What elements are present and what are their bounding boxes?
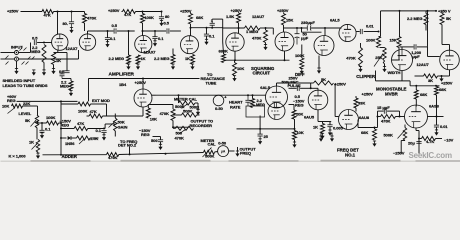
- svg-text:REG: REG: [295, 103, 304, 108]
- label 500usec: [282, 79, 299, 84]
- svg-text:0.5: 0.5: [164, 21, 170, 26]
- tube U12 12AU7 monostable B: [440, 50, 460, 70]
- wire: [70, 79, 72, 82]
- label 47K ext mod: [90, 109, 97, 114]
- capacitor 0.1 stage3: [204, 34, 209, 36]
- tube U1b 12AX7 section B: [79, 34, 95, 50]
- junction: [441, 75, 443, 77]
- wire box down: [259, 116, 261, 135]
- wire to 6AL5: [311, 27, 342, 29]
- wire: [173, 114, 182, 116]
- resistor 22K pot: [12, 104, 23, 108]
- capacitor 15uuF: [384, 109, 386, 114]
- wire: [84, 12, 86, 14]
- svg-text:500K: 500K: [183, 109, 193, 114]
- wire: [293, 105, 295, 111]
- svg-text:12AU7: 12AU7: [417, 62, 430, 67]
- svg-text:15K: 15K: [286, 18, 293, 23]
- tube U6a 6AL5 clipper lower: [314, 36, 334, 56]
- ground 2.2MEG stage2: [127, 64, 131, 69]
- resistor 10K det1: [293, 131, 297, 140]
- svg-text:1N56: 1N56: [65, 141, 75, 146]
- svg-text:470K: 470K: [160, 111, 170, 116]
- tube U6b 6AL5 clipper upper: [339, 24, 356, 41]
- resistor 68K plate stage3: [189, 14, 193, 25]
- ground 0.005: [328, 130, 332, 135]
- ground 25: [258, 139, 262, 144]
- junction rail/cap80: [71, 11, 73, 13]
- svg-text:100K: 100K: [145, 15, 155, 20]
- wire: [154, 31, 156, 37]
- label DET NO2: [118, 143, 137, 148]
- svg-text:6AL5: 6AL5: [330, 18, 340, 23]
- wire: [401, 47, 403, 50]
- resistor 47K ext mod: [89, 114, 102, 118]
- resistor 47K plate supply: [42, 10, 54, 14]
- label 500K det: [183, 109, 193, 114]
- capacitor 0.005: [327, 125, 332, 127]
- label SHIELDED INPUT: [3, 78, 36, 83]
- junction: [259, 128, 261, 130]
- potentiometer arrow 22K: [8, 108, 16, 114]
- svg-text:GAIN: GAIN: [118, 124, 128, 129]
- wire: [148, 104, 173, 106]
- label 0.5 coupling: [112, 23, 118, 28]
- capacitor 0.5 cathode bypass: [64, 71, 69, 73]
- svg-text:0.1: 0.1: [45, 127, 51, 132]
- label 100K: [145, 15, 155, 20]
- wire: [331, 133, 333, 137]
- label 2.2MEG mvbr: [407, 16, 422, 21]
- label 230uuF: [301, 20, 315, 25]
- wire: [260, 27, 273, 29]
- wire: [396, 116, 405, 118]
- junction: [103, 128, 105, 130]
- resistor 1K diff: [321, 124, 325, 134]
- ground 0.1: [106, 42, 110, 47]
- label 5K: [446, 16, 451, 21]
- label +250V stage4: [231, 8, 243, 13]
- wire: [237, 147, 239, 151]
- wire to plate U2: [142, 23, 144, 36]
- section label FREQ DET: [337, 148, 359, 153]
- label 0.005: [333, 125, 344, 130]
- label 6AL5 squaring: [260, 85, 270, 90]
- label 12AX7 stage2: [144, 50, 157, 55]
- tube U13 6AS8: [405, 105, 428, 128]
- junction: [377, 116, 379, 118]
- svg-text:6AS8: 6AS8: [429, 104, 440, 109]
- svg-text:100K: 100K: [78, 109, 88, 114]
- wire cathode U1a: [57, 50, 59, 52]
- capacitor 0.1 to ground: [105, 38, 110, 40]
- section label AMPLIFIER: [109, 72, 135, 78]
- label 0.1 stage2: [158, 36, 164, 41]
- wire: [87, 115, 90, 117]
- wire to U12 grid: [428, 56, 440, 58]
- label EXT MOD: [92, 98, 110, 103]
- ground shield: [15, 69, 19, 74]
- ground 500ohm: [196, 110, 200, 115]
- wire heart bus 2: [260, 128, 294, 130]
- svg-text:+250V: +250V: [277, 8, 289, 13]
- svg-text:2.2 MEG: 2.2 MEG: [109, 56, 124, 61]
- wire to grid U2: [117, 30, 135, 32]
- svg-text:0-50: 0-50: [215, 106, 224, 111]
- junction: [310, 87, 312, 89]
- tube U9 6AU5 diff: [308, 90, 328, 110]
- ground 500uuF: [159, 144, 163, 149]
- label -150V 2: [139, 128, 151, 133]
- capacitor 0.5 coupling2: [167, 28, 169, 33]
- svg-text:CLIPPER: CLIPPER: [356, 74, 376, 79]
- junction clipper/100K: [378, 31, 380, 33]
- wire: [238, 11, 240, 14]
- label 500ohm: [190, 104, 201, 109]
- wire pulse: [289, 87, 297, 89]
- wire grid leak drop: [128, 31, 130, 55]
- resistor 4.7K: [422, 137, 436, 141]
- svg-text:100K: 100K: [366, 37, 376, 42]
- wire: [283, 12, 285, 13]
- svg-text:CIRCUIT: CIRCUIT: [253, 71, 271, 76]
- wire width box left: [375, 71, 377, 81]
- label -250V: [393, 151, 405, 156]
- resistor 2.2MEG shield: [69, 81, 73, 90]
- resistor 1K cathode: [52, 53, 56, 65]
- junction: [234, 59, 236, 61]
- label 47K adder: [77, 121, 84, 126]
- label 25K: [375, 55, 382, 60]
- wire: [300, 87, 311, 89]
- svg-text:68K: 68K: [420, 92, 427, 97]
- wire: [417, 46, 428, 48]
- label 1.5K: [226, 14, 234, 19]
- resistor 100K plate load stage2: [141, 14, 145, 24]
- wire width box: [376, 80, 411, 82]
- label 100K diff load: [295, 53, 305, 58]
- junction stage3 output: [190, 27, 192, 29]
- diode 1N56: [68, 136, 71, 140]
- wire: [114, 114, 116, 119]
- section label CIRCUIT: [253, 71, 271, 76]
- svg-text:20μ: 20μ: [408, 141, 415, 146]
- junction: [435, 85, 437, 87]
- junction: [238, 27, 240, 29]
- svg-text:500K: 500K: [175, 104, 185, 109]
- wire coupling bus: [88, 30, 114, 32]
- wire: [62, 78, 71, 80]
- wire input2 to grid U1b: [18, 58, 78, 60]
- svg-text:0.1: 0.1: [209, 34, 215, 39]
- capacitor heart rate: [245, 95, 250, 106]
- resistor 15K width: [397, 37, 401, 48]
- label 470K det: [160, 111, 170, 116]
- wire grid 1B4: [103, 115, 144, 117]
- wire: [90, 137, 98, 139]
- label 1MEG: [246, 29, 258, 34]
- wire: [160, 137, 162, 140]
- wire: [329, 127, 331, 130]
- svg-text:33K: 33K: [358, 101, 365, 106]
- wire adder bus: [43, 154, 107, 156]
- wire: [265, 43, 267, 45]
- resistor 15K plate stage5: [282, 14, 286, 26]
- label GAIN: [118, 124, 128, 129]
- capacitor 0.01 clipper: [360, 29, 362, 34]
- capacitor 0.5 coupling: [114, 28, 116, 33]
- label 50K: [118, 120, 125, 125]
- capacitor 500uuF: [158, 140, 163, 142]
- junction: [374, 127, 376, 129]
- wire: [61, 103, 78, 105]
- svg-text:0.1: 0.1: [110, 36, 116, 41]
- wire: [142, 12, 144, 14]
- label PULSE: [288, 83, 301, 88]
- wire U6a plate: [324, 28, 326, 36]
- section label CLIPPER: [356, 74, 376, 79]
- label 20K: [296, 112, 303, 117]
- svg-text:0.5: 0.5: [32, 36, 38, 41]
- wire: [276, 83, 278, 86]
- wire: [418, 131, 420, 154]
- wire: [379, 36, 381, 38]
- svg-text:68K: 68K: [439, 87, 446, 92]
- potentiometer 25K clipper width: [374, 48, 386, 67]
- wire U4 cathode: [234, 51, 236, 60]
- svg-text:47K: 47K: [44, 12, 51, 17]
- svg-text:470K: 470K: [87, 15, 97, 20]
- svg-text:μμF: μμF: [301, 36, 309, 41]
- label +250V supply stage1: [7, 9, 19, 14]
- ground 0.1 stage3: [205, 39, 209, 44]
- wire: [364, 31, 379, 33]
- wire squaring feed 2: [231, 94, 266, 96]
- capacitor 20u: [416, 141, 421, 143]
- capacitor 50uuF: [295, 28, 300, 45]
- svg-text:1K: 1K: [141, 56, 146, 61]
- svg-text:MVBR: MVBR: [385, 91, 399, 96]
- label 1K: [56, 58, 61, 63]
- ground 470K clipper: [359, 67, 363, 72]
- wire to U3 grid: [170, 30, 181, 32]
- svg-text:μA: μA: [221, 150, 226, 154]
- svg-text:4.7K: 4.7K: [426, 139, 434, 144]
- label MEG squaring: [256, 102, 265, 107]
- wire: [107, 31, 109, 38]
- svg-text:500: 500: [151, 138, 158, 143]
- label 0.01 clipper: [366, 24, 374, 29]
- ground det1 b: [330, 136, 334, 141]
- junction 0.1 branch3: [206, 27, 208, 29]
- tube U10 6AU8: [339, 110, 359, 130]
- ground 100K diff load: [300, 69, 304, 74]
- junction: [284, 59, 286, 61]
- ground 470K stage4: [264, 45, 268, 50]
- svg-text:+250V: +250V: [362, 92, 374, 97]
- resistor 680K: [222, 54, 226, 63]
- section label MONOSTABLE: [376, 87, 407, 92]
- wire: [53, 65, 55, 69]
- meter M2 uA: [218, 146, 229, 157]
- wire: [215, 151, 218, 154]
- wire: [104, 124, 106, 129]
- svg-text:0.1: 0.1: [158, 36, 164, 41]
- wire input lead: [1, 52, 15, 54]
- capacitor 230uuF: [307, 25, 311, 30]
- input terminal lower: [15, 57, 19, 61]
- svg-text:10K: 10K: [297, 130, 304, 135]
- wire: [41, 131, 43, 134]
- capacitor pulse coupling: [297, 86, 299, 91]
- ground cap80: [70, 28, 74, 33]
- wire: [442, 44, 450, 46]
- resistor 470K clipper: [359, 48, 363, 67]
- ground 10K: [233, 76, 237, 81]
- wire: [301, 45, 303, 59]
- wire: [449, 45, 451, 51]
- wire input to cap: [18, 52, 30, 54]
- junction 470K top: [265, 27, 267, 29]
- wire: [400, 46, 414, 48]
- wire U9 cathode: [317, 110, 319, 122]
- wire freq det 2 lead: [129, 147, 131, 155]
- label 0.1 adder: [96, 128, 102, 133]
- label 1K stage2: [141, 56, 146, 61]
- svg-text:RATE: RATE: [230, 104, 241, 109]
- junction: [435, 10, 437, 12]
- wire to U11: [392, 59, 400, 61]
- wire: [294, 119, 296, 131]
- label 6AU5: [304, 115, 315, 120]
- junction: [60, 128, 62, 130]
- wire: [37, 106, 39, 115]
- wire: [294, 140, 296, 143]
- ground 80 stage2: [160, 21, 164, 26]
- wire: [172, 121, 174, 128]
- capacitor 0.1 stage2: [152, 37, 157, 39]
- wire U13 cathode: [415, 128, 417, 131]
- label 68K mvbr left: [420, 92, 427, 97]
- ground 68K det1: [373, 141, 377, 146]
- resistor 500 pot recorder: [176, 126, 194, 130]
- ground cathode: [52, 69, 56, 74]
- label 100K width: [366, 37, 376, 42]
- label +250V top right: [438, 8, 451, 13]
- svg-text:REG: REG: [61, 122, 70, 127]
- svg-text:1K: 1K: [56, 58, 61, 63]
- svg-text:10K: 10K: [237, 66, 244, 71]
- ground grid leak: [42, 70, 46, 75]
- wire: [30, 43, 32, 53]
- wire 5K to U12 plate: [441, 25, 443, 45]
- resistor 500K det: [182, 113, 197, 117]
- resistor 100K diff load: [300, 58, 304, 69]
- wire ext mod drop: [88, 79, 90, 102]
- junction: [252, 94, 254, 96]
- ground 0.01 det1: [435, 130, 439, 135]
- label 12AU7: [252, 14, 265, 19]
- ground clipper cathode: [317, 68, 321, 73]
- label 6AL5 clipper: [330, 18, 340, 23]
- label uuF: [301, 36, 309, 41]
- resistor 100K ext mod: [78, 102, 91, 106]
- junction: [247, 94, 249, 96]
- svg-text:+250V: +250V: [135, 80, 147, 85]
- ground 0.1 level: [40, 133, 44, 138]
- ground 1K diff: [321, 133, 325, 138]
- svg-text:6AU5: 6AU5: [304, 115, 315, 120]
- label 15K: [286, 18, 293, 23]
- resistor 5K diff: [314, 81, 334, 85]
- resistor 470K det: [171, 109, 175, 121]
- label RATE: [230, 104, 241, 109]
- wire squaring feed: [156, 94, 231, 96]
- resistor 470K bus: [107, 153, 119, 157]
- label +250V diff: [335, 81, 347, 86]
- wire: [416, 130, 419, 132]
- wire: [302, 27, 308, 29]
- ground 25K pot: [383, 67, 387, 72]
- label 15K width: [390, 37, 397, 42]
- wire: [310, 83, 312, 88]
- wire plate 1B4: [142, 79, 144, 90]
- svg-text:10K: 10K: [150, 117, 157, 122]
- junction: [294, 128, 296, 130]
- junction: [37, 121, 39, 123]
- svg-text:LEADS TO TUBE GRIDS: LEADS TO TUBE GRIDS: [3, 83, 48, 88]
- label REACTANCE: [201, 76, 226, 81]
- shield hatching input leads: [6, 48, 35, 65]
- wire: [436, 117, 438, 126]
- label 1N56: [65, 141, 75, 146]
- junction 50uuF: [296, 27, 298, 29]
- label uuF mvbr: [413, 54, 421, 59]
- label 250V pulse: [289, 76, 299, 81]
- label 80: [63, 21, 68, 26]
- wire to grid U5: [272, 28, 274, 35]
- resistor 1K cathode stage2: [136, 55, 140, 64]
- label HEART: [229, 100, 243, 105]
- junction: [129, 153, 131, 155]
- wire: [154, 39, 156, 41]
- label FREQ: [240, 151, 251, 156]
- section label MVBR: [385, 91, 399, 96]
- resistor 68K det1: [373, 129, 377, 140]
- label 0.5 bypass: [59, 69, 65, 74]
- junction: [172, 126, 174, 128]
- junction: [399, 10, 401, 12]
- label 470K recorder: [175, 136, 185, 141]
- junction: [427, 10, 429, 12]
- wire: [399, 111, 401, 116]
- svg-text:470K: 470K: [252, 36, 262, 41]
- junction: [301, 27, 303, 29]
- label 6AU8: [359, 115, 370, 120]
- wire U11 cathode drop: [401, 71, 403, 81]
- svg-text:0.005: 0.005: [333, 125, 344, 130]
- resistor 1.5K plate stage4: [237, 13, 241, 23]
- svg-text:1.5K: 1.5K: [226, 14, 234, 19]
- wire B+ rail right: [381, 10, 437, 12]
- ground input network: [32, 70, 36, 75]
- svg-text:MEG: MEG: [31, 49, 40, 54]
- label 15uuF: [377, 105, 390, 110]
- junction: [418, 138, 420, 140]
- capacitor 1200uuF: [414, 44, 416, 49]
- resistor 500K output pot: [204, 150, 215, 154]
- svg-text:500K: 500K: [384, 133, 394, 138]
